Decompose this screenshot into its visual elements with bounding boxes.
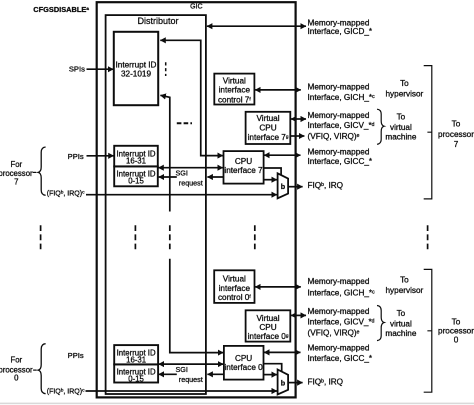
brace for processor 7: [38, 147, 45, 195]
svg-text:PPIs: PPIs: [68, 152, 84, 161]
svg-text:Interface, GICH_*c: Interface, GICH_*c: [308, 93, 376, 102]
svg-text:CPU: CPU: [235, 157, 252, 166]
svg-text:For: For: [10, 160, 22, 169]
svg-text:request: request: [179, 375, 203, 384]
svg-text:To: To: [397, 309, 406, 318]
virtual CPU interface 0 box: [246, 310, 291, 341]
wire GICC interface (proc 0): [264, 351, 301, 353]
virtual CPU interface 7 box: [246, 112, 291, 144]
dash from For processor 0: [33, 369, 36, 371]
svg-text:To: To: [400, 79, 409, 88]
continuation dash column far left: [40, 225, 42, 249]
svg-text:Memory-mapped: Memory-mapped: [308, 111, 370, 120]
svg-text:Memory-mapped: Memory-mapped: [308, 277, 370, 286]
interrupt box 16-31 (proc 7): [114, 146, 158, 167]
svg-text:Virtual: Virtual: [223, 275, 246, 284]
interrupt box 0-15 (proc 0): [114, 364, 158, 382]
svg-text:control 0f: control 0f: [218, 293, 251, 302]
wire SGI request right segment (proc 0): [207, 373, 223, 375]
wire CPU interface 0 to mux top: [264, 364, 282, 372]
virtual interface control 7 box: [214, 74, 254, 105]
svg-text:virtual: virtual: [390, 320, 412, 329]
wire SGI request left segment (proc 7): [159, 176, 177, 178]
svg-text:b: b: [281, 379, 286, 388]
svg-text:0-15: 0-15: [128, 177, 144, 186]
svg-text:To: To: [452, 318, 461, 327]
wire 16-31 to CPU interface 0 double arrow: [159, 363, 224, 365]
continuation dash column right brackets: [427, 225, 429, 249]
wire GICC interface (proc 7): [264, 154, 300, 156]
wire GICH interface (proc 7): [255, 89, 301, 91]
svg-text:Memory-mapped: Memory-mapped: [308, 307, 370, 316]
dashes inside distributor (banked boxes continuation): [177, 122, 192, 124]
svg-text:interface 7g: interface 7g: [248, 133, 289, 142]
wire GICV interface (proc 0): [291, 314, 306, 316]
svg-text:Interrupt ID: Interrupt ID: [116, 60, 157, 69]
svg-text:(VFIQ, VIRQ)e: (VFIQ, VIRQ)e: [308, 328, 360, 337]
wire SGI request right segment (proc 7): [207, 176, 223, 178]
svg-text:0-15: 0-15: [128, 375, 144, 384]
wire CPU interface 7 to mux left: [264, 179, 277, 181]
bracket to processor 0: [424, 269, 432, 392]
svg-text:For: For: [10, 355, 22, 364]
wire GICD memory-mapped interface: [207, 25, 306, 27]
svg-text:CFGSDISABLEa: CFGSDISABLEa: [33, 5, 89, 14]
svg-text:Virtual: Virtual: [256, 314, 279, 323]
svg-text:To: To: [397, 113, 406, 122]
wire VFIQ VIRQ output (proc 7): [290, 135, 304, 137]
svg-text:Interface, GICD_*: Interface, GICD_*: [308, 27, 373, 36]
svg-text:Interface, GICH_*c: Interface, GICH_*c: [308, 289, 376, 298]
svg-text:Virtual: Virtual: [223, 77, 246, 86]
svg-text:interface: interface: [219, 284, 251, 293]
wire legacy FIQ IRQ into mux (proc 0): [86, 390, 278, 392]
GIC outer box: [97, 2, 296, 397]
Distributor box: [106, 15, 206, 394]
wire continuation dashes: [169, 225, 171, 249]
svg-text:FIQb, IRQ: FIQb, IRQ: [308, 378, 344, 387]
CPU interface 0 box: [224, 346, 264, 380]
svg-text:Memory-mapped: Memory-mapped: [308, 82, 370, 91]
svg-text:CPU: CPU: [259, 124, 276, 133]
svg-text:b: b: [281, 182, 286, 191]
svg-text:Distributor: Distributor: [137, 16, 178, 26]
svg-text:To: To: [452, 120, 461, 129]
svg-text:Interface, GICV_*d: Interface, GICV_*d: [308, 317, 375, 326]
svg-text:interface 0: interface 0: [224, 363, 263, 372]
svg-text:Memory-mapped: Memory-mapped: [308, 344, 370, 353]
svg-text:control 7f: control 7f: [218, 95, 251, 104]
brace for processor 0: [38, 344, 45, 394]
svg-text:Interface, GICV_*d: Interface, GICV_*d: [308, 121, 375, 130]
svg-text:interface 0g: interface 0g: [248, 332, 289, 341]
interrupt box 16-31 (proc 0): [114, 345, 158, 364]
CPU interface 7 box: [224, 151, 264, 184]
svg-text:CPU: CPU: [235, 354, 252, 363]
svg-text:request: request: [179, 178, 203, 187]
svg-text:Memory-mapped: Memory-mapped: [308, 147, 370, 156]
wire 32-1019 to CPU interface 7: [160, 40, 223, 155]
continuation dash column interrupt boxes: [134, 225, 136, 249]
wire GICV interface (proc 7): [291, 118, 306, 120]
svg-text:interface 7: interface 7: [224, 166, 263, 175]
svg-text:processor: processor: [438, 327, 474, 336]
vertical ellipsis right of 32-1019 box: [165, 62, 167, 76]
svg-text:interface: interface: [219, 86, 251, 95]
scan artifact bottom band: [0, 403, 474, 405]
virtual interface control 0 box: [214, 270, 254, 303]
wire mux 7 output FIQ IRQ: [288, 186, 303, 188]
wire SGI request left segment (proc 0): [159, 373, 177, 375]
svg-text:32-1019: 32-1019: [121, 69, 151, 78]
svg-text:machine: machine: [385, 133, 416, 142]
svg-text:16-31: 16-31: [126, 356, 146, 365]
svg-text:7: 7: [454, 140, 459, 149]
brace to virtual machine (proc 0): [377, 306, 384, 341]
svg-text:0: 0: [454, 336, 459, 345]
interrupt box 32-1019: [114, 32, 158, 105]
svg-text:To: To: [400, 276, 409, 285]
svg-text:(FIQb, IRQ)c: (FIQb, IRQ)c: [47, 387, 85, 395]
svg-text:hypervisor: hypervisor: [386, 286, 424, 295]
wire CPU interface 7 to mux top: [264, 168, 282, 175]
svg-text:GIC: GIC: [190, 4, 202, 11]
svg-text:Interface, GICC_*: Interface, GICC_*: [308, 354, 373, 363]
svg-text:16-31: 16-31: [126, 157, 146, 166]
bypass mux b (proc 0): [278, 370, 289, 395]
svg-text:processor: processor: [438, 130, 474, 139]
wire SPIs into 32-1019: [87, 68, 114, 70]
svg-text:Virtual: Virtual: [256, 114, 279, 123]
svg-text:SPIs: SPIs: [69, 64, 85, 73]
svg-text:Memory-mapped: Memory-mapped: [308, 18, 370, 27]
svg-text:CPU: CPU: [259, 323, 276, 332]
interrupt box 0-15 (proc 7): [114, 166, 158, 186]
wire PPIs into 16-31 (proc 7): [87, 155, 114, 157]
svg-text:SGI: SGI: [176, 168, 188, 177]
svg-text:(FIQb, IRQ)c: (FIQb, IRQ)c: [47, 190, 85, 198]
continuation dash column CPU interfaces: [254, 225, 256, 249]
wire legacy FIQ IRQ into mux (proc 7): [86, 194, 277, 196]
wire GICH interface (proc 0): [255, 286, 301, 288]
wire 16-31 to CPU interface 7 double arrow: [158, 167, 223, 169]
dash from For processor 7: [33, 171, 37, 173]
wire 32-1019 down to CPU interface 0 (upper solid part): [160, 95, 169, 211]
svg-text:PPIs: PPIs: [68, 351, 84, 360]
wire into CPU interface 0 (lower solid part): [170, 259, 224, 353]
brace to virtual machine (proc 7): [377, 109, 384, 144]
svg-text:0: 0: [14, 374, 19, 383]
svg-text:FIQb, IRQ: FIQb, IRQ: [308, 181, 344, 190]
svg-text:(VFIQ, VIRQ)e: (VFIQ, VIRQ)e: [308, 132, 360, 141]
bypass mux b (proc 7): [278, 173, 289, 198]
svg-text:virtual: virtual: [390, 123, 412, 132]
svg-text:hypervisor: hypervisor: [386, 89, 424, 98]
svg-text:7: 7: [14, 177, 18, 186]
svg-text:machine: machine: [385, 329, 416, 338]
svg-text:SGI: SGI: [176, 365, 188, 374]
bracket to processor 7: [424, 66, 432, 199]
svg-text:Interface, GICC_*: Interface, GICC_*: [308, 157, 373, 166]
wire mux 0 output FIQ IRQ: [288, 382, 303, 384]
wire CPU interface 0 to mux left: [264, 374, 278, 376]
